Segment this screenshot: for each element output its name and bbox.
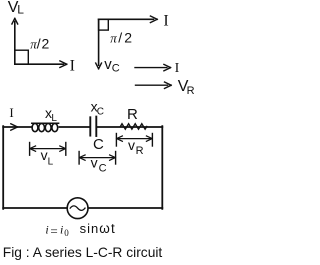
svg-text:i: i [45, 223, 48, 237]
svg-text:π: π [110, 30, 117, 45]
svg-text:C: C [97, 106, 104, 117]
svg-text:C: C [93, 136, 104, 153]
svg-text:/: / [37, 35, 41, 51]
svg-text:L: L [51, 113, 57, 124]
svg-text:v: v [41, 147, 48, 163]
svg-text:sin: sin [80, 221, 100, 236]
svg-text:v: v [91, 155, 98, 171]
svg-text:L: L [48, 156, 54, 167]
svg-text:t: t [111, 221, 115, 236]
svg-text:C: C [112, 63, 120, 75]
svg-text:R: R [127, 106, 138, 123]
svg-text:0: 0 [64, 228, 69, 238]
svg-text:I: I [175, 61, 180, 76]
svg-text:v: v [128, 137, 135, 153]
svg-text:2: 2 [42, 35, 50, 51]
svg-text:L: L [17, 3, 24, 17]
svg-text:/: / [118, 29, 122, 45]
svg-text:I: I [70, 57, 75, 74]
svg-text:Fig : A series L-C-R circuit: Fig : A series L-C-R circuit [3, 245, 163, 260]
svg-text:C: C [99, 163, 107, 175]
svg-text:R: R [187, 85, 195, 97]
svg-text:I: I [163, 12, 168, 29]
svg-text:i: i [60, 223, 63, 237]
svg-text:2: 2 [124, 29, 132, 45]
svg-text:ω: ω [99, 221, 110, 236]
svg-text:I: I [9, 105, 13, 120]
svg-text:R: R [136, 145, 144, 157]
svg-text:=: = [50, 223, 57, 238]
